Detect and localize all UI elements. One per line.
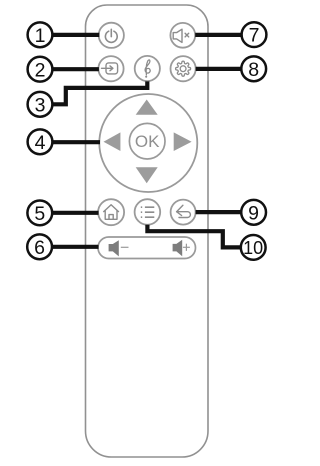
callout 9: [241, 200, 266, 225]
settings gear button: [171, 56, 196, 81]
callout 3: [28, 92, 53, 117]
svg-text:9: 9: [248, 202, 259, 224]
remote body: [86, 5, 209, 457]
mute button: [170, 23, 195, 48]
d-pad up triangle: [136, 100, 158, 115]
svg-text:3: 3: [35, 94, 46, 116]
back button: [171, 200, 196, 225]
d-pad ring: [99, 94, 197, 192]
source icon: [102, 63, 118, 74]
home button: [98, 199, 124, 225]
callout 5: [27, 201, 52, 226]
vol+ plus: [183, 244, 190, 251]
music button: [135, 56, 160, 81]
callout 2: [28, 57, 53, 82]
leader line 10: [147, 225, 240, 248]
vol- minus: [121, 246, 129, 248]
leader line 5: [52, 211, 99, 215]
d-pad right triangle: [174, 132, 192, 151]
volume rocker pill: [98, 237, 196, 259]
back return-arrow icon: [177, 205, 191, 217]
leader line 2: [52, 67, 99, 71]
svg-text:1: 1: [35, 25, 46, 47]
callout 10: [241, 235, 266, 260]
callout 6: [27, 234, 52, 259]
leader line 7: [195, 33, 241, 37]
svg-text:4: 4: [35, 132, 46, 154]
svg-text:8: 8: [248, 59, 259, 81]
menu list icon: [141, 207, 155, 217]
vol- speaker icon: [109, 240, 119, 256]
gear icon: [176, 61, 191, 76]
d-pad down triangle: [136, 167, 158, 183]
power button: [99, 23, 124, 48]
leader line 1: [52, 33, 99, 37]
home icon: [103, 205, 119, 220]
leader line 8: [196, 67, 242, 71]
svg-text:7: 7: [249, 25, 260, 47]
svg-text:2: 2: [35, 59, 46, 81]
callout 8: [241, 56, 266, 81]
leader line 3: [52, 81, 147, 104]
source button: [98, 56, 123, 81]
svg-text:10: 10: [243, 238, 263, 258]
menu button: [135, 199, 161, 225]
callout 1: [28, 22, 53, 47]
OK button: [129, 123, 165, 159]
svg-text:OK: OK: [135, 132, 160, 151]
mute icon: [173, 29, 189, 42]
callout 4: [28, 129, 53, 154]
vol+ speaker icon: [173, 240, 183, 256]
music treble clef icon: [145, 60, 150, 78]
svg-text:6: 6: [34, 237, 45, 259]
leader line 9: [196, 210, 242, 214]
svg-text:5: 5: [34, 203, 45, 225]
power icon: [105, 29, 117, 42]
leader line 4: [52, 140, 100, 144]
d-pad left triangle: [104, 132, 121, 151]
callout 7: [242, 22, 267, 47]
leader line 6: [52, 245, 99, 249]
